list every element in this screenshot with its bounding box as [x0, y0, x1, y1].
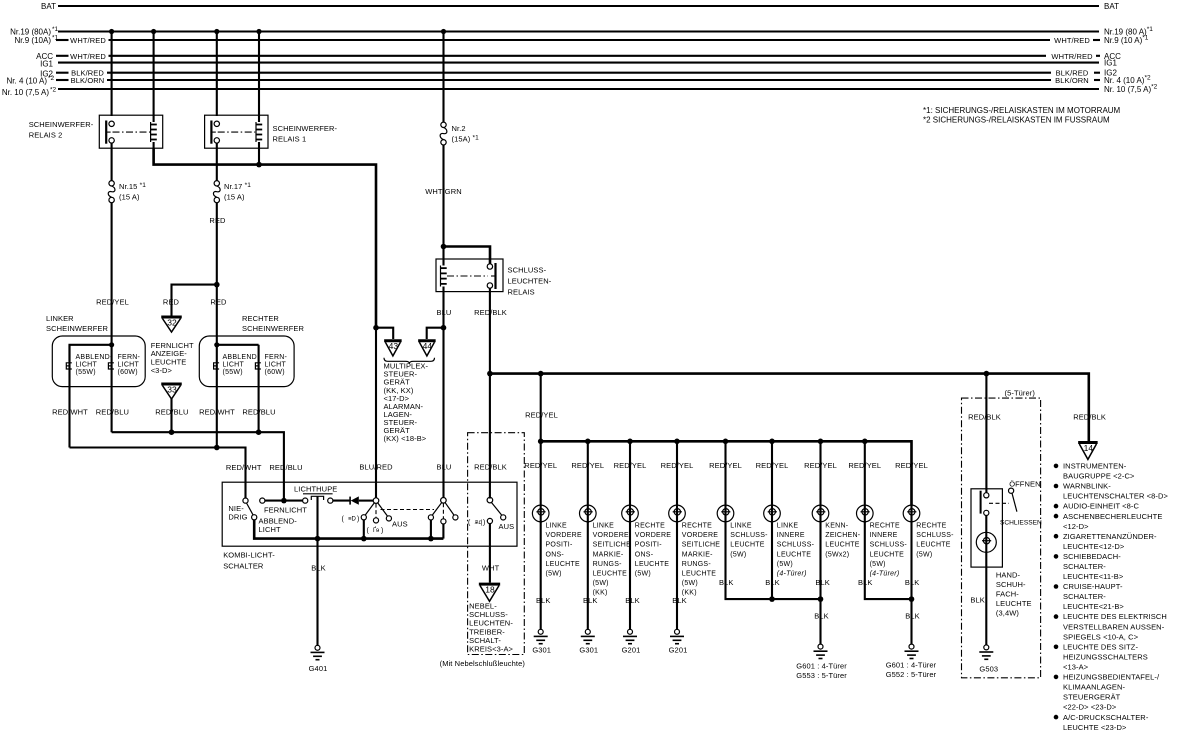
bulb HANDSCHUHFACHLEUCHTE 3,4W [976, 532, 996, 552]
wire lamp 9 feed [910, 441, 912, 523]
svg-text:LEUCHTE: LEUCHTE [593, 571, 628, 578]
svg-text:FERN-: FERN- [118, 354, 141, 361]
wire RED/BLU left FERN down [111, 345, 113, 432]
svg-text:14: 14 [1084, 443, 1094, 453]
svg-text:G301: G301 [579, 646, 598, 655]
node junction lamp bus x=772.0 [769, 439, 775, 445]
svg-text:(5W): (5W) [730, 551, 746, 558]
svg-text:ONS-: ONS- [635, 551, 654, 558]
svg-text:LEUCHTE DES SITZ-: LEUCHTE DES SITZ- [1063, 642, 1138, 651]
relay SCHEINWERFER-RELAIS 1 [205, 115, 268, 181]
connector triangle 44 [418, 339, 436, 342]
svg-text:LICHT: LICHT [265, 362, 287, 369]
svg-text:FERN-: FERN- [265, 354, 288, 361]
svg-text:RELAIS 1: RELAIS 1 [273, 135, 307, 144]
svg-text:SCHLUSS-: SCHLUSS- [777, 542, 815, 549]
svg-text:CRUISE-HAUPT-: CRUISE-HAUPT- [1063, 582, 1123, 591]
wire switch to bulb [985, 516, 987, 646]
svg-text:SEITLICHE: SEITLICHE [593, 542, 632, 549]
svg-text:<12-D>: <12-D> [1063, 522, 1089, 531]
ground G301 lamp 1 [538, 629, 543, 634]
lamp RECHTE VORDERE POSITIONSLEUCHTE [622, 505, 639, 522]
lamp LINKE VORDERE POSITIONSLEUCHTE [532, 505, 549, 522]
svg-text:POSITI-: POSITI- [635, 542, 662, 549]
svg-text:Nr. 4 (10 A)*2: Nr. 4 (10 A)*2 [1104, 75, 1151, 86]
svg-text:LINKE: LINKE [730, 523, 752, 530]
svg-text:(5-Türer): (5-Türer) [1005, 389, 1036, 398]
wire RED/YEL from fuse 15 to left headlight [111, 203, 113, 345]
bulb FERNLICHT 60W left [108, 363, 114, 369]
svg-text:LEUCHTE: LEUCHTE [825, 542, 860, 549]
svg-text:SCHUH-: SCHUH- [996, 580, 1026, 589]
svg-text:43: 43 [389, 341, 399, 351]
wire BAT bus [58, 5, 1099, 7]
lamp LINKE SCHLUSSLEUCHTE [717, 505, 734, 522]
svg-text:FACH-: FACH- [996, 590, 1019, 599]
wire BLK lamp 9 down [910, 522, 912, 645]
svg-text:WHTR/RED: WHTR/RED [1051, 52, 1093, 61]
svg-text:SCHEINWERFER-: SCHEINWERFER- [273, 124, 338, 133]
svg-text:IG1: IG1 [40, 60, 53, 69]
svg-text:BLK: BLK [970, 596, 984, 605]
svg-text:Nr. 4 (10 A): Nr. 4 (10 A) [7, 77, 48, 86]
svg-text:BLK: BLK [815, 578, 829, 587]
svg-text:ZEICHEN-: ZEICHEN- [825, 532, 860, 539]
svg-text:LEUCHTE: LEUCHTE [870, 551, 905, 558]
svg-text:LEUCHTE<21-B>: LEUCHTE<21-B> [1063, 602, 1124, 611]
svg-text:LICHT: LICHT [223, 362, 245, 369]
svg-text:KREIS<3-A>: KREIS<3-A> [469, 645, 513, 654]
wire FERNLICHT contact row [260, 498, 308, 503]
wire Nr.19 (80A) bus [58, 30, 1099, 32]
wire inside right headlight [217, 344, 259, 346]
svg-text:LEUCHTEN-: LEUCHTEN- [508, 277, 552, 286]
svg-text:(5W): (5W) [777, 561, 793, 568]
svg-text:RELAIS 2: RELAIS 2 [29, 131, 63, 140]
ground G503 [984, 645, 989, 650]
switch NIEDRIG/ABBLEND (dimmer) [243, 498, 257, 520]
fuse Nr.15 (15A) [109, 181, 114, 186]
svg-text:LEUCHTE <23-D>: LEUCHTE <23-D> [1063, 723, 1127, 732]
svg-text:(5W): (5W) [682, 580, 698, 587]
svg-text:BLK: BLK [536, 596, 550, 605]
ground G601/G552 right tail group [909, 644, 914, 649]
svg-text:WHT/RED: WHT/RED [70, 52, 106, 61]
wire RED/BLU right FERN down [258, 345, 260, 432]
wire RED/WHT right ABBLEND down [216, 345, 218, 448]
lamp KENNZEICHENLEUCHTE [812, 505, 829, 522]
wire diode to main light switch pivot [359, 500, 374, 502]
switch position-light rotary (pivot BLU) [428, 498, 458, 525]
svg-text:SCHIEBEDACH-: SCHIEBEDACH- [1063, 552, 1121, 561]
ground G401 [315, 645, 320, 650]
svg-text:KENN-: KENN- [825, 523, 848, 530]
wire from triangle 33 to RED/BLU net [170, 399, 172, 432]
ground G301 lamp 2 [585, 629, 590, 634]
lamp RECHTE SCHLUSSLEUCHTE [903, 505, 920, 522]
svg-text:LEUCHTE: LEUCHTE [777, 551, 812, 558]
switch NEBELSCHLUSS (fog) [487, 497, 506, 523]
node junction BLU/RED at multiplex [373, 325, 379, 331]
svg-text:G601 : 4-Türer: G601 : 4-Türer [796, 662, 847, 671]
svg-text:(55W): (55W) [223, 369, 243, 376]
svg-text:LEUCHTENSCHALTER <8-D>: LEUCHTENSCHALTER <8-D> [1063, 492, 1169, 501]
svg-text:SCHLUSS-: SCHLUSS- [870, 542, 908, 549]
svg-text:BLK: BLK [719, 578, 733, 587]
node junction lamp bus x=587.8 [585, 439, 591, 445]
wire vertical drop x=259.0 [258, 32, 260, 117]
svg-text:A/C-DRUCKSCHALTER-: A/C-DRUCKSCHALTER- [1063, 713, 1149, 722]
svg-text:SCHEINWERFER: SCHEINWERFER [46, 324, 109, 333]
svg-text:Nr.9 (10 A)*1: Nr.9 (10 A)*1 [1104, 35, 1149, 46]
svg-text:Nr.9 (10A): Nr.9 (10A) [15, 36, 52, 45]
svg-text:33: 33 [167, 385, 177, 395]
lamp RECHTE VORDERE SEITLICHE MARKIERUNGSLEUCHTE [669, 505, 686, 522]
relay SCHEINWERFER-RELAIS 2 [99, 115, 162, 181]
svg-text:BAT: BAT [1104, 2, 1119, 11]
svg-text:BLK/ORN: BLK/ORN [1055, 76, 1089, 85]
connector triangle 43 [384, 339, 402, 342]
ground bus inside switch box [254, 520, 443, 539]
wire lamp 7 feed [819, 441, 821, 523]
svg-text:RED: RED [210, 298, 227, 307]
svg-text:INNERE: INNERE [777, 532, 805, 539]
svg-text:(15 A): (15 A) [224, 193, 245, 202]
svg-text:FERNLICHT: FERNLICHT [264, 506, 307, 515]
wire BLU/RED continues to light switch [375, 328, 377, 498]
svg-text:(5W): (5W) [916, 551, 932, 558]
svg-text:LEUCHTE: LEUCHTE [635, 561, 670, 568]
ground G201 lamp 3 [628, 629, 633, 634]
svg-text:≡D: ≡D [348, 517, 357, 523]
svg-text:*2: *2 [48, 75, 55, 82]
node junction lamp bus x=820.5 [818, 439, 824, 445]
svg-text:RED/WHT: RED/WHT [226, 463, 262, 472]
svg-text:KLIMAANLAGEN-: KLIMAANLAGEN- [1063, 683, 1126, 692]
component box HANDSCHUHFACHLEUCHTE [971, 489, 1002, 567]
svg-text:SCHALTER-: SCHALTER- [1063, 562, 1106, 571]
svg-text:INNERE: INNERE [870, 532, 898, 539]
svg-text:AUS: AUS [392, 520, 408, 529]
svg-text:*1: SICHERUNGS-/RELAISKASTEN I: *1: SICHERUNGS-/RELAISKASTEN IM MOTORRAU… [923, 106, 1121, 115]
svg-text:LEUCHTE: LEUCHTE [730, 542, 765, 549]
svg-text:<3-D>: <3-D> [151, 366, 173, 375]
svg-text:LINKE: LINKE [593, 523, 615, 530]
node junction RED split to indicator [214, 282, 220, 288]
svg-text:DRIG: DRIG [228, 513, 247, 522]
svg-text:BAT: BAT [41, 2, 56, 11]
dash-dot box 5-Tuerer glovebox section [962, 398, 1041, 678]
svg-text:ABBLEND-: ABBLEND- [76, 354, 113, 361]
svg-text:G552 : 5-Türer: G552 : 5-Türer [886, 670, 937, 679]
bullet list of fed circuits [1054, 464, 1059, 469]
svg-text:ÖFFNEN: ÖFFNEN [1009, 480, 1040, 489]
svg-text:BAUGRUPPE <2-C>: BAUGRUPPE <2-C> [1063, 472, 1135, 481]
svg-text:VERSTELLBAREN AUSSEN-: VERSTELLBAREN AUSSEN- [1063, 622, 1165, 631]
wire vertical drop to fuse Nr.2 [442, 32, 444, 123]
bulb ABBLENDLICHT 55W right [214, 363, 220, 369]
svg-text:(4-Türer): (4-Türer) [777, 571, 807, 578]
node junction lamp bus x=630.0 [627, 439, 633, 445]
svg-text:<22-D> <23-D>: <22-D> <23-D> [1063, 703, 1117, 712]
wire BLK lamp 5 down [726, 522, 821, 599]
node junction on Nr.19 bus x=443.5 [441, 29, 446, 34]
svg-text:G301: G301 [532, 646, 551, 655]
svg-text:SCHEINWERFER-: SCHEINWERFER- [29, 120, 94, 129]
svg-text:HEIZUNGSBEDIENTAFEL-/: HEIZUNGSBEDIENTAFEL-/ [1063, 673, 1160, 682]
switch LICHTHUPE momentary bridge [311, 496, 323, 500]
wire BLK lamp 6 down [771, 522, 773, 599]
wire WHT/GRN from fuse Nr.2 [442, 145, 444, 247]
svg-text:SCHALTER-: SCHALTER- [1063, 592, 1106, 601]
svg-text:HEIZUNGSSCHALTERS: HEIZUNGSSCHALTERS [1063, 653, 1148, 662]
svg-text:G401: G401 [309, 664, 328, 673]
svg-text:WHT: WHT [482, 564, 500, 573]
svg-text:(55W): (55W) [76, 369, 96, 376]
svg-text:): ) [483, 520, 485, 527]
wire Nr.10 (7,5A) bus [58, 88, 1099, 90]
svg-text:(5Wx2): (5Wx2) [825, 551, 849, 558]
svg-text:*2 SICHERUNGS-/RELAISKASTEN IM: *2 SICHERUNGS-/RELAISKASTEN IM FUSSRAUM [923, 116, 1110, 125]
svg-text:RECHTER: RECHTER [242, 314, 279, 323]
node junction on Nr.19 bus [109, 29, 114, 34]
svg-text:18: 18 [485, 585, 495, 595]
diode (cathode left) [349, 497, 351, 505]
svg-text:RUNGS-: RUNGS- [682, 561, 712, 568]
svg-text:RECHTE: RECHTE [916, 523, 946, 530]
svg-text:KOMBI-LICHT-: KOMBI-LICHT- [223, 551, 275, 560]
svg-text:BLU: BLU [437, 308, 452, 317]
connector triangle 32 [161, 316, 182, 319]
svg-text:G201: G201 [622, 646, 641, 655]
svg-text:RED/WHT: RED/WHT [199, 408, 235, 417]
svg-text:WHT/GRN: WHT/GRN [425, 187, 462, 196]
svg-text:*1: *1 [52, 26, 59, 33]
node junction on Nr.19 bus [256, 29, 261, 34]
connector triangle 14 [1078, 441, 1098, 444]
svg-text:G601 : 4-Türer: G601 : 4-Türer [886, 661, 937, 670]
svg-text:*2: *2 [50, 87, 57, 94]
svg-text:MARKIE-: MARKIE- [682, 551, 713, 558]
wire relay coil output trunk to x=376 [154, 148, 376, 328]
svg-text:LEUCHTE DES ELEKTRISCH: LEUCHTE DES ELEKTRISCH [1063, 612, 1167, 621]
wire main switch contact to ground bus [363, 520, 365, 539]
svg-text:LEUCHTE: LEUCHTE [546, 561, 581, 568]
relay SCHLUSS-LEUCHTEN-RELAIS [436, 247, 503, 292]
fuse Nr.17 (15A) [214, 181, 219, 186]
svg-text:SPIEGELS <10-A, C>: SPIEGELS <10-A, C> [1063, 632, 1139, 641]
wire from LICHTHUPE to diode [333, 500, 350, 502]
svg-text:RED/WHT: RED/WHT [52, 408, 88, 417]
svg-text:RECHTE: RECHTE [870, 523, 900, 530]
svg-text:SCHLUSS-: SCHLUSS- [730, 532, 768, 539]
wire vertical drop x=111.6 [111, 32, 113, 117]
node junction lamp bus x=725.5 [723, 439, 729, 445]
connector triangle 33 [161, 383, 182, 386]
svg-text:): ) [357, 516, 359, 523]
bulb FERNLICHT 60W right [255, 363, 261, 369]
wire lamp 6 feed [771, 441, 773, 523]
wire lamp 2 feed [587, 441, 589, 523]
svg-text:VORDERE: VORDERE [682, 532, 718, 539]
svg-text:Nr. 10 (7,5 A)*2: Nr. 10 (7,5 A)*2 [1104, 84, 1158, 95]
fuse Nr.2 (15A) [441, 122, 446, 127]
svg-text:RED/BLK: RED/BLK [474, 463, 507, 472]
svg-text:LINKE: LINKE [777, 523, 799, 530]
dash-dot box Nebelschluss section [468, 433, 525, 655]
svg-text:LEUCHTE<12-D>: LEUCHTE<12-D> [1063, 542, 1125, 551]
svg-text:(5W): (5W) [593, 580, 609, 587]
wire branch to triangle 44 [427, 328, 444, 339]
svg-text:RED/YEL: RED/YEL [525, 411, 558, 420]
wire BLU from relay coil [442, 287, 444, 499]
wire vertical drop x=216.8 [216, 32, 218, 117]
node junction lamp bus x=540.7 [538, 439, 544, 445]
svg-text:BLK: BLK [311, 564, 325, 573]
wire to schluss relay contact [444, 247, 491, 265]
svg-text:RED/BLU: RED/BLU [242, 408, 275, 417]
svg-text:44: 44 [423, 341, 433, 351]
svg-text:RED/BLK: RED/BLK [968, 413, 1001, 422]
wire BLK lamp 2 to ground [587, 522, 589, 630]
svg-text:BLU: BLU [437, 463, 452, 472]
svg-text:LICHTHUPE: LICHTHUPE [294, 485, 337, 494]
lamp LINKE INNERE SCHLUSSLEUCHTE [764, 505, 781, 522]
svg-text:BLK: BLK [814, 612, 828, 621]
svg-text:POSITI-: POSITI- [546, 542, 573, 549]
svg-text:SCHEINWERFER: SCHEINWERFER [242, 324, 305, 333]
switch box KOMBI-LICHT-SCHALTER [222, 482, 517, 546]
svg-text:<13-A>: <13-A> [1063, 663, 1089, 672]
svg-text:Nr.2: Nr.2 [452, 124, 466, 133]
ground G601/G553 left tail group [818, 644, 823, 649]
svg-text:(5W): (5W) [635, 571, 651, 578]
wire switch2 contacts to ground bus [430, 520, 432, 539]
wire RED/BLU collector net [112, 432, 284, 500]
svg-text:LEUCHTE: LEUCHTE [916, 542, 951, 549]
svg-text:): ) [381, 528, 383, 535]
svg-text:RED/BLK: RED/BLK [1073, 413, 1106, 422]
wire BLK lamp 7 down [819, 522, 821, 645]
node junction on Nr.19 bus [151, 29, 156, 34]
node junction RED/BLU into FERN row [281, 498, 287, 504]
node junction BLU at multiplex [441, 325, 447, 331]
svg-text:ZIGARETTENANZÜNDER-: ZIGARETTENANZÜNDER- [1063, 532, 1157, 541]
svg-text:G201: G201 [669, 646, 688, 655]
connector triangle 18 [479, 583, 500, 586]
wire BLK to ground G401 [316, 539, 318, 646]
wire branch to triangle 43 [376, 328, 393, 339]
svg-text:SCHLIESSEN: SCHLIESSEN [1000, 520, 1042, 527]
wire IG1 bus [58, 62, 1099, 64]
svg-text:ѫɖ: ѫɖ [475, 520, 483, 526]
svg-text:(3,4W): (3,4W) [996, 609, 1020, 618]
bulb ABBLENDLICHT 55W left [66, 363, 72, 369]
brace under triangles 43 44 [384, 358, 435, 364]
svg-text:(15 A): (15 A) [119, 193, 140, 202]
wire IG2 BLK/RED bus [56, 72, 69, 74]
wire lamp 1 feed [540, 441, 542, 523]
svg-text:RELAIS: RELAIS [508, 288, 535, 297]
svg-text:(4-Türer): (4-Türer) [870, 571, 900, 578]
svg-text:SCHLUSS-: SCHLUSS- [508, 266, 547, 275]
wire RED/WHT collector net [70, 448, 246, 499]
svg-text:HAND-: HAND- [996, 571, 1021, 580]
svg-text:Nr. 10 (7,5 A): Nr. 10 (7,5 A) [2, 88, 49, 97]
svg-text:SCHALTER: SCHALTER [223, 562, 264, 571]
wire RED/BLK from relay contact [489, 288, 491, 498]
svg-text:SCHLUSS-: SCHLUSS- [916, 532, 954, 539]
svg-text:BLK: BLK [858, 578, 872, 587]
svg-text:ABBLEND: ABBLEND [223, 354, 257, 361]
wire RED/BLK into glovebox [985, 374, 987, 493]
wire LICHTHUPE stem to ground bus [316, 496, 318, 538]
lamp LINKE VORDERE SEITLICHE MARKIERUNGSLEUCHTE [580, 505, 597, 522]
node junction on Nr.19 bus [214, 29, 219, 34]
wire lamp 8 feed [864, 441, 866, 523]
node junction relay1 coil at trunk [256, 162, 262, 168]
svg-text:AUDIO-EINHEIT <8-C: AUDIO-EINHEIT <8-C [1063, 502, 1140, 511]
svg-text:IG1: IG1 [1104, 59, 1117, 68]
wire ACC WHT/RED bus [56, 55, 69, 57]
svg-text:WHT/RED: WHT/RED [1054, 36, 1090, 45]
svg-text:LEUCHTE: LEUCHTE [682, 571, 717, 578]
svg-text:*1: *1 [52, 35, 59, 42]
node junction lamp bus x=677.0 [674, 439, 680, 445]
wire BLK lamp 4 to ground [676, 522, 678, 630]
svg-text:WARNBLINK-: WARNBLINK- [1063, 482, 1111, 491]
svg-text:BLK: BLK [905, 612, 919, 621]
svg-text:VORDERE: VORDERE [593, 532, 629, 539]
lamp RECHTE INNERE SCHLUSSLEUCHTE [857, 505, 874, 522]
svg-text:(60W): (60W) [118, 369, 138, 376]
wire RED/YEL lamp bus [541, 441, 912, 505]
svg-text:RED/BLU: RED/BLU [155, 408, 188, 417]
wire lamp 4 feed [676, 441, 678, 523]
svg-text:VORDERE: VORDERE [635, 532, 671, 539]
wire BLK lamp 1 to ground [540, 522, 542, 630]
svg-text:INSTRUMENTEN-: INSTRUMENTEN- [1063, 462, 1127, 471]
svg-text:RED/BLK: RED/BLK [474, 308, 507, 317]
wire RED/WHT left ABBLEND down [68, 345, 70, 448]
wire WHT from fog switch [489, 524, 491, 583]
wire vertical drop x=153.6 [153, 32, 155, 117]
wire RED from fuse 17 to right headlight [216, 203, 218, 345]
svg-text:LINKER: LINKER [46, 314, 74, 323]
svg-text:(5W): (5W) [870, 561, 886, 568]
wire BLK lamp 8 down [865, 522, 912, 599]
svg-text:RED: RED [163, 298, 180, 307]
svg-text:WHT/RED: WHT/RED [70, 36, 106, 45]
wire RED/YEL feed to lamp bus [540, 374, 542, 442]
svg-text:LICHT: LICHT [259, 525, 281, 534]
node junction WHT/GRN split [441, 244, 447, 250]
svg-text:Ґɘ: Ґɘ [373, 526, 380, 534]
svg-text:LINKE: LINKE [546, 523, 568, 530]
svg-text:LEUCHTE: LEUCHTE [996, 599, 1032, 608]
svg-text:VORDERE: VORDERE [546, 532, 582, 539]
switch glovebox (OEFFNEN/SCHLIESSEN) [981, 488, 1017, 515]
svg-text:LEUCHTE<11-B>: LEUCHTE<11-B> [1063, 572, 1124, 581]
svg-text:BLK: BLK [905, 578, 919, 587]
svg-text:LICHT: LICHT [118, 362, 140, 369]
svg-text:G553 : 5-Türer: G553 : 5-Türer [796, 671, 847, 680]
svg-text:SEITLICHE: SEITLICHE [682, 542, 721, 549]
svg-text:(60W): (60W) [265, 369, 285, 376]
svg-text:MARKIE-: MARKIE- [593, 551, 624, 558]
wire BLK lamp 3 to ground [629, 522, 631, 630]
mechanical link dashes switch1-switch2 [381, 509, 435, 511]
